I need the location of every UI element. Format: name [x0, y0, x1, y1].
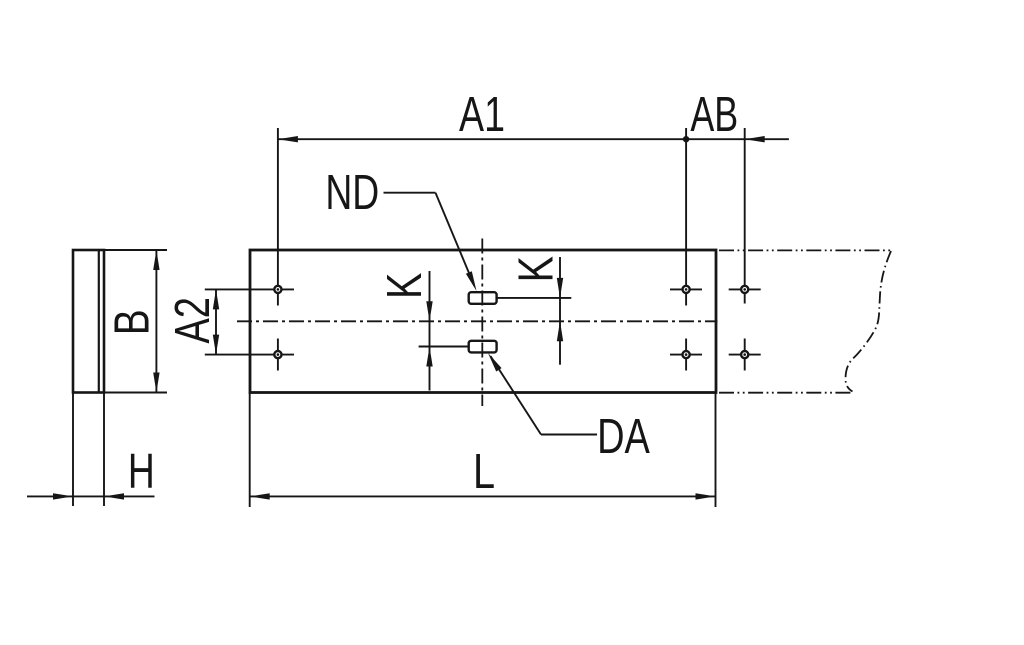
- dimension A2 extension line bottom: [205, 354, 294, 356]
- dimension H extension line right: [103, 393, 105, 507]
- hole bottom-left ring: [274, 351, 281, 358]
- svg-text:L: L: [473, 445, 495, 499]
- dimension B line: [155, 250, 157, 393]
- svg-text:A1: A1: [459, 87, 505, 142]
- hole bottom-right horizontal axis: [670, 354, 702, 356]
- dimension A1 extension line right / hole axis: [685, 128, 687, 306]
- hole top-left ring: [274, 286, 281, 293]
- dimension B arrow up: [153, 250, 159, 270]
- leader ND horizontal: [384, 192, 436, 194]
- dimension A2 extension line top: [205, 288, 294, 290]
- dimension A1 line: [278, 138, 686, 140]
- hole top-right ring: [683, 286, 690, 293]
- svg-text:H: H: [128, 445, 155, 499]
- dimension AB arrow: [745, 136, 765, 142]
- leader DA arrowhead: [488, 353, 502, 372]
- dimension AB extension line / continuation hole axis: [744, 128, 746, 304]
- continuation hole top horizontal axis: [729, 288, 761, 290]
- dimension K right arrow up: [557, 321, 563, 341]
- slot lower extension line: [419, 346, 469, 348]
- dimension AB line: [686, 138, 789, 140]
- dimension A2 arrow down: [213, 335, 219, 355]
- svg-text:K: K: [378, 272, 432, 299]
- leader ND arrowhead: [466, 271, 477, 291]
- svg-text:A2: A2: [166, 297, 221, 344]
- continuation hole top ring: [741, 286, 748, 293]
- dimension H arrow left-pointing: [104, 493, 124, 499]
- dimension H arrow right-pointing: [53, 493, 73, 499]
- leader DA horizontal: [541, 434, 597, 436]
- dimension L extension right: [715, 393, 717, 508]
- hole bottom-right ring: [683, 351, 690, 358]
- dimension L line: [250, 495, 716, 497]
- continuation hole bottom center dot: [743, 353, 746, 356]
- dimension A1 end dot: [683, 136, 689, 142]
- hole bottom-right vertical axis: [685, 339, 687, 371]
- svg-text:B: B: [105, 309, 159, 335]
- dimension K left line: [429, 271, 431, 391]
- dimension L extension left: [249, 393, 251, 508]
- continuation hole top center dot: [743, 288, 746, 291]
- hole bottom-left center dot: [277, 353, 280, 356]
- vertical centerline: [481, 239, 483, 407]
- dimension A2 line: [215, 289, 217, 354]
- side view plate outline: [73, 250, 104, 393]
- main plate outline: [250, 250, 716, 393]
- dimension L arrow right: [696, 493, 716, 499]
- dimension K right line: [559, 257, 561, 365]
- phantom continuation line bottom: [719, 392, 854, 394]
- hole top-right horizontal axis: [670, 288, 702, 290]
- svg-text:K: K: [509, 256, 563, 283]
- leader ND diagonal: [436, 193, 475, 286]
- dimension H extension line left: [72, 393, 74, 507]
- side view inner edge line: [98, 250, 100, 393]
- dimension B arrow down: [153, 373, 159, 393]
- dimension A1 extension line left / hole axis: [277, 128, 279, 306]
- dimension A2 arrow up: [213, 289, 219, 309]
- dimension A1 arrow left: [278, 136, 298, 142]
- slot ND upper: [469, 292, 497, 304]
- hole bottom-left vertical axis: [277, 339, 279, 371]
- phantom continuation line top: [719, 249, 891, 251]
- continuation hole bottom ring: [741, 351, 748, 358]
- dimension L arrow left: [250, 493, 270, 499]
- continuation hole bottom vertical axis: [744, 339, 746, 371]
- leader DA diagonal: [491, 356, 542, 434]
- side view top edge extension: [104, 249, 167, 251]
- horizontal centerline: [237, 320, 718, 322]
- svg-text:DA: DA: [597, 409, 650, 464]
- dimension K right arrow down: [557, 278, 563, 298]
- hole top-right center dot: [685, 288, 688, 291]
- dimension K left arrow down: [426, 301, 432, 321]
- dimension H line: [27, 495, 155, 497]
- side view bottom edge extension: [104, 392, 167, 394]
- dimension K left arrow up: [426, 347, 432, 367]
- wavy break line: [846, 251, 892, 392]
- slot DA lower: [469, 341, 497, 353]
- hole bottom-right center dot: [685, 353, 688, 356]
- svg-text:ND: ND: [325, 166, 379, 220]
- svg-text:AB: AB: [690, 87, 738, 142]
- continuation hole bottom horizontal axis: [729, 354, 761, 356]
- slot upper extension line: [497, 297, 572, 299]
- hole top-left center dot: [277, 288, 280, 291]
